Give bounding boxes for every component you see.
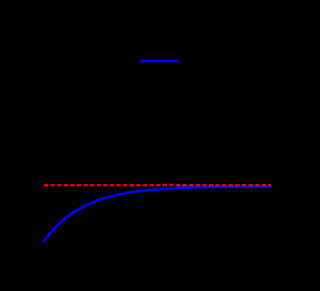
curve: blue exponential rise: [44, 186, 271, 241]
asymptote: red dashed horizontal line: [44, 184, 271, 186]
legend line sample (blue): [140, 60, 179, 63]
